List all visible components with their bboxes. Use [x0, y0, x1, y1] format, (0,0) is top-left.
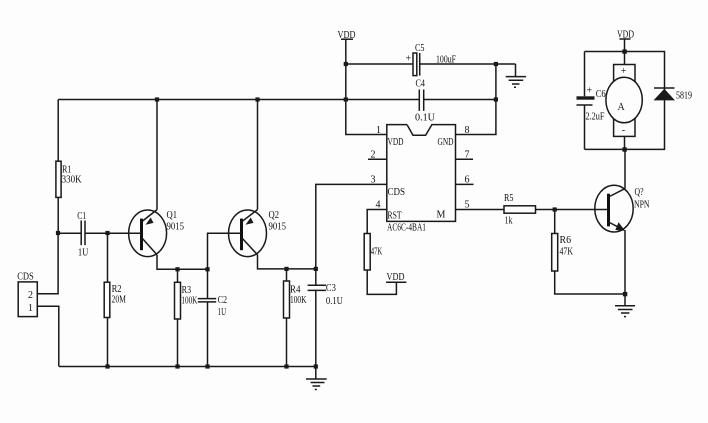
capacitor C4 0.1U	[415, 79, 436, 124]
svg-text:6: 6	[465, 175, 470, 186]
svg-text:1U: 1U	[218, 307, 227, 318]
wire pin 4 to reset resistor	[367, 210, 387, 234]
pin 7 stub	[456, 150, 474, 161]
svg-text:1: 1	[376, 125, 381, 136]
svg-text:9015: 9015	[269, 222, 287, 233]
svg-text:9015: 9015	[167, 222, 185, 233]
node R3 top junction	[175, 267, 179, 271]
wire reset resistor to VDD tap	[367, 270, 396, 294]
motor M1 body	[606, 52, 642, 150]
svg-text:0.1U: 0.1U	[326, 296, 344, 307]
node C1 left junction	[56, 231, 60, 235]
svg-text:0.1U: 0.1U	[415, 113, 436, 124]
svg-text:1: 1	[28, 303, 33, 314]
svg-text:C6: C6	[596, 89, 606, 100]
svg-text:C4: C4	[416, 79, 426, 90]
node VDD/frame junction	[622, 49, 626, 53]
capacitor C6 2.2uF	[577, 52, 606, 150]
svg-text:R2: R2	[112, 284, 122, 295]
svg-text:C2: C2	[218, 295, 228, 306]
capacitor C3 0.1U	[308, 283, 344, 367]
wire emitter down to ground junction	[624, 230, 626, 294]
power symbol VDD (reset pull-up)	[386, 272, 406, 283]
svg-text:47K: 47K	[560, 247, 574, 258]
svg-text:47K: 47K	[371, 247, 383, 258]
node C3/pin3 junction	[314, 267, 318, 271]
svg-text:C3: C3	[326, 283, 336, 294]
wire Q2 base left and down to junction	[208, 233, 241, 269]
svg-text:2: 2	[371, 150, 376, 161]
svg-text:RST: RST	[388, 211, 402, 222]
svg-text:100K: 100K	[290, 295, 307, 306]
svg-text:Q1: Q1	[167, 210, 178, 221]
wire CDS pin 1 down to ground rail	[37, 306, 59, 366]
node junction R6 top	[553, 207, 557, 211]
svg-text:AC6C-4BA1: AC6C-4BA1	[387, 223, 426, 234]
connector CDS photocell	[17, 271, 37, 316]
power symbol VDD (oscillator supply)	[338, 30, 356, 41]
svg-text:Q2: Q2	[269, 210, 280, 221]
svg-text:8: 8	[465, 125, 470, 136]
transistor Q1 9015	[85, 210, 184, 257]
svg-text:R4: R4	[290, 285, 301, 296]
svg-text:CDS: CDS	[388, 187, 406, 198]
wire pin 3 to C3 branch	[316, 184, 387, 285]
capacitor C1 1U	[58, 211, 139, 258]
pin 2 stub	[368, 150, 387, 161]
wire Q2 emitter up to rail	[257, 100, 259, 210]
svg-text:R6: R6	[560, 235, 572, 246]
svg-text:-: -	[622, 125, 625, 136]
svg-text:100K: 100K	[181, 295, 198, 306]
diode D1 5819	[654, 88, 693, 102]
node R4 top junction	[284, 267, 288, 271]
resistor R1 330K	[56, 100, 82, 234]
wire pin 5 to R5	[456, 209, 505, 211]
svg-text:1k: 1k	[505, 216, 513, 227]
svg-text:Q?: Q?	[635, 187, 644, 198]
capacitor C5 100uF	[406, 43, 457, 76]
svg-text:C5: C5	[415, 43, 425, 54]
resistor R5 1k	[504, 193, 536, 227]
svg-text:R3: R3	[182, 285, 192, 296]
wire right vertical joining C5 line, C4 line and pin 8	[456, 64, 496, 135]
node C2/Q2-base junction	[205, 267, 209, 271]
wire collector up to motor block	[624, 149, 626, 188]
motor block outer frame	[585, 52, 665, 150]
svg-text:M: M	[437, 210, 446, 221]
svg-text:20M: 20M	[112, 295, 127, 306]
svg-text:A: A	[618, 102, 626, 113]
wire Q1 emitter up to rail	[156, 100, 158, 210]
wire R6 bottom to emitter/ground junction	[555, 271, 625, 294]
capacitor C2 1U	[198, 269, 227, 366]
ground (bottom rail)	[306, 367, 327, 390]
svg-text:+: +	[406, 54, 412, 65]
wire CDS pin 2 up to C1 junction	[37, 233, 58, 293]
svg-text:7: 7	[465, 150, 470, 161]
resistor R4 100K	[284, 269, 308, 367]
pin 6 stub	[456, 175, 474, 186]
wire bottom ground rail	[59, 366, 316, 368]
svg-text:R5: R5	[504, 193, 514, 204]
node R2 top junction	[105, 231, 109, 235]
svg-text:GND: GND	[438, 137, 454, 148]
svg-text:100uF: 100uF	[436, 55, 456, 66]
wire Q1 collector down and right	[157, 255, 208, 269]
wire VDD rail y=99 (left rail through C4)	[58, 99, 496, 101]
transistor Q2 9015	[229, 210, 287, 257]
IC U1 AC6C-4BA1 body	[387, 125, 456, 234]
svg-text:1U: 1U	[78, 247, 89, 258]
node bottom rail junctions	[105, 364, 318, 368]
resistor R2 20M	[104, 233, 126, 366]
svg-text:2: 2	[28, 290, 33, 301]
node junction dots top	[155, 62, 498, 102]
ground (top, after C5)	[506, 64, 526, 87]
svg-text:330K: 330K	[62, 174, 83, 185]
svg-text:CDS: CDS	[17, 271, 34, 282]
svg-text:5819: 5819	[676, 91, 692, 102]
ground (emitter)	[615, 294, 635, 317]
svg-text:VDD: VDD	[387, 272, 405, 283]
svg-text:2.2uF: 2.2uF	[586, 112, 605, 123]
power symbol VDD (motor supply)	[617, 29, 634, 51]
wire R5 to base of Q?	[536, 209, 608, 211]
wire VDD stem down to pin 1	[346, 39, 387, 134]
transistor Q? NPN driver	[595, 185, 650, 232]
wire C5 bypass line	[346, 63, 516, 65]
node frame bottom junction	[622, 147, 626, 151]
resistor R3 100K	[175, 269, 198, 366]
svg-text:+: +	[621, 66, 627, 77]
wire Q2 collector down and right	[258, 255, 316, 269]
resistor 47K (RST pin)	[364, 234, 383, 271]
svg-text:C1: C1	[77, 211, 86, 222]
resistor R6 47K	[552, 210, 574, 272]
node emitter/R6 junction	[623, 292, 627, 296]
svg-text:VDD: VDD	[388, 137, 404, 148]
svg-text:+: +	[587, 86, 593, 97]
svg-text:NPN: NPN	[634, 200, 650, 211]
